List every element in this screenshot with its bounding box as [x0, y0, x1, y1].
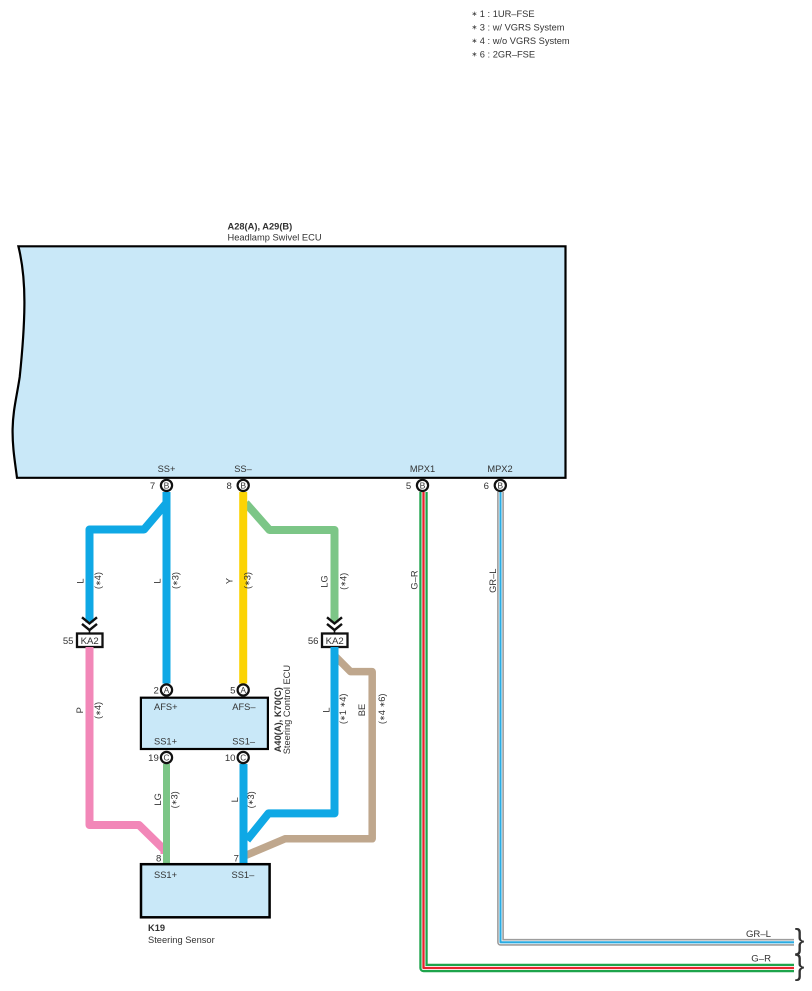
svg-text:AFS+: AFS+ [154, 702, 178, 712]
pin 7 B circle [150, 480, 172, 492]
svg-text:5: 5 [406, 481, 411, 492]
svg-text:A28(A), A29(B): A28(A), A29(B) [228, 222, 293, 232]
pin 10 C circle [225, 752, 249, 764]
wire G-R striped from pin 5 MPX1 to bottom right [424, 492, 795, 968]
wire L (*3) blue from pin 10C to pin 7 of K19 [240, 764, 248, 864]
Steering Sensor box K19 [141, 864, 270, 917]
wire BE (*4 *6) tan from connector 56 to pin 7 of K19 [246, 656, 372, 855]
svg-text:(∗​3): (∗​3) [246, 791, 256, 808]
pin 5 A circle [230, 684, 249, 696]
svg-text:B: B [497, 481, 503, 491]
svg-text:C: C [164, 754, 170, 763]
wire LG (*3) green from pin 19C to pin 8 of K19 [163, 764, 170, 864]
svg-text:KA2: KA2 [326, 636, 344, 647]
svg-text:Headlamp Swivel ECU: Headlamp Swivel ECU [228, 233, 322, 243]
wire L (*1 *4) blue from connector 56 to pin 7 of K19 [247, 647, 335, 840]
svg-text:(∗​1 ∗​4): (∗​1 ∗​4) [338, 694, 348, 725]
svg-text:A: A [164, 686, 170, 695]
svg-text:B: B [240, 481, 246, 491]
pin 2 A circle [153, 684, 172, 696]
connector 55 KA2 box [77, 634, 103, 648]
junction arrow into connector 55 [82, 617, 97, 633]
svg-text:KA2: KA2 [81, 636, 99, 647]
svg-text:SS1–: SS1– [232, 736, 256, 746]
wire Y (*3) yellow from pin 8 to pin 5A [239, 492, 247, 684]
svg-text:(∗​3): (∗​3) [169, 791, 179, 808]
svg-text:BE: BE [357, 704, 367, 716]
svg-text:}: } [795, 924, 805, 956]
svg-text:∗​ 6 : 2GR–FSE: ∗​ 6 : 2GR–FSE [472, 49, 536, 59]
svg-text:P: P [75, 707, 85, 713]
wire L (*4) blue branch from pin 7 to connector 55 [90, 493, 167, 623]
legend note [472, 9, 570, 60]
svg-text:L: L [322, 707, 332, 712]
svg-text:SS1–: SS1– [232, 870, 256, 880]
svg-text:AFS–: AFS– [232, 702, 256, 712]
svg-text:8: 8 [156, 853, 161, 864]
svg-text:SS–: SS– [234, 464, 252, 474]
svg-text:B: B [164, 481, 170, 491]
svg-text:B: B [420, 481, 426, 491]
svg-text:LG: LG [320, 575, 330, 587]
wire P (*4) pink from connector 55 to pin 8 of K19 [90, 647, 165, 854]
svg-text:GR–L: GR–L [488, 569, 498, 593]
svg-text:L: L [230, 797, 240, 802]
svg-text:7: 7 [234, 853, 239, 864]
svg-text:Y: Y [225, 578, 235, 584]
svg-text:(∗​3): (∗​3) [243, 572, 253, 589]
svg-text:LG: LG [153, 793, 163, 805]
connector 56 KA2 box [322, 634, 348, 648]
svg-text:(∗​4): (∗​4) [93, 572, 103, 589]
svg-text:Steering Control ECU: Steering Control ECU [282, 665, 292, 754]
svg-text:(∗​4 ∗​6): (∗​4 ∗​6) [377, 694, 387, 725]
svg-text:C: C [240, 754, 246, 763]
svg-text:GR–L: GR–L [746, 929, 772, 940]
svg-text:19: 19 [148, 753, 159, 764]
svg-text:6: 6 [484, 481, 489, 492]
svg-text:10: 10 [225, 753, 236, 764]
svg-text:G–R: G–R [409, 570, 419, 589]
svg-text:SS1+: SS1+ [154, 736, 177, 746]
svg-text:2: 2 [153, 686, 158, 697]
svg-text:(∗​3): (∗​3) [171, 572, 181, 589]
wire GR-L striped from pin 6 MPX2 to bottom right [501, 492, 795, 942]
svg-text:7: 7 [150, 481, 155, 492]
pin 5 B circle [406, 480, 428, 492]
Steering Control ECU box A40/K70 [141, 698, 268, 749]
svg-text:(∗​4): (∗​4) [93, 702, 103, 719]
svg-text:L: L [153, 578, 163, 583]
pin 19 C circle [148, 752, 172, 764]
pin 6 B circle [484, 480, 506, 492]
junction arrow into connector 56 [327, 617, 342, 633]
svg-text:SS1+: SS1+ [154, 870, 177, 880]
svg-text:5: 5 [230, 686, 235, 697]
wire LG (*4) green branch from pin 8 to connector 56 [246, 503, 335, 623]
svg-text:∗​ 4 : w/o VGRS System: ∗​ 4 : w/o VGRS System [472, 36, 570, 46]
svg-text:K19: K19 [148, 923, 165, 933]
svg-text:(∗​4): (∗​4) [339, 573, 349, 590]
svg-text:A: A [240, 686, 246, 695]
wire L (*3) blue from pin 7 to pin 2A [163, 492, 171, 684]
svg-text:G–R: G–R [751, 953, 771, 964]
svg-text:MPX2: MPX2 [487, 464, 512, 474]
svg-text:56: 56 [308, 636, 319, 647]
svg-text:∗​ 1 : 1UR–FSE: ∗​ 1 : 1UR–FSE [472, 9, 535, 19]
svg-text:SS+: SS+ [158, 464, 176, 474]
svg-text:55: 55 [63, 636, 74, 647]
pin 8 B circle [227, 480, 249, 492]
svg-text:MPX1: MPX1 [410, 464, 435, 474]
ECU box A28/A29 Headlamp Swivel ECU [13, 246, 566, 477]
svg-text:∗​ 3 : w/ VGRS System: ∗​ 3 : w/ VGRS System [472, 22, 565, 32]
svg-text:Steering Sensor: Steering Sensor [148, 935, 215, 945]
svg-text:L: L [76, 578, 86, 583]
svg-text:8: 8 [227, 481, 232, 492]
